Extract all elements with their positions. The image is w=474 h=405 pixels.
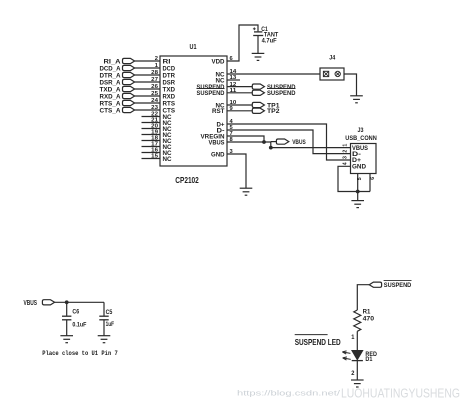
svg-text:Place close to U1 Pin 7: Place close to U1 Pin 7 <box>42 350 118 357</box>
U1 pin 9 RST <box>212 106 233 115</box>
svg-text:RTS_A: RTS_A <box>100 100 121 107</box>
wire U1 pin4 D+ to J3 pin3 <box>227 124 351 160</box>
U1 pin 20 NC stub <box>142 124 172 133</box>
off-page connector TP2 <box>252 108 280 115</box>
U1 pin 28 DTR <box>151 70 175 79</box>
off-page connector SUSPEND# (LED) <box>369 280 411 289</box>
wire VBUS to capacitors <box>55 301 104 303</box>
U1 pin 4 D+ <box>217 119 234 128</box>
off-page connector DSR_A <box>100 79 135 86</box>
U1 pin 16 NC stub <box>142 148 172 157</box>
wire DCD_A to U1 pin 1 <box>135 67 160 69</box>
U1 pin 18 NC stub <box>142 136 172 145</box>
wire C5 to ground <box>103 320 105 336</box>
ground below D1 <box>351 380 364 387</box>
wire RI_A to U1 pin 2 <box>135 60 160 62</box>
wire DTR_A to U1 pin 28 <box>135 74 160 76</box>
svg-text:SUSPEND: SUSPEND <box>384 282 412 289</box>
svg-text:SUSPEND LED: SUSPEND LED <box>295 338 341 347</box>
wire U1 pin9 RST to TP2 <box>227 110 252 112</box>
ground below C5 <box>98 336 111 343</box>
svg-text:LUOHUATINGYUSHENG: LUOHUATINGYUSHENG <box>341 387 460 401</box>
svg-text:15: 15 <box>151 154 158 160</box>
svg-text:C5: C5 <box>106 309 113 316</box>
svg-text:VDD: VDD <box>212 58 225 65</box>
wire TXD_A to U1 pin 26 <box>135 88 160 90</box>
svg-text:TP2: TP2 <box>267 108 280 115</box>
off-page connector RI_A <box>104 58 135 65</box>
capacitor C5 <box>99 309 114 328</box>
U1 pin 13 NC <box>216 75 237 84</box>
wire J4 to ground <box>344 74 357 96</box>
wire U1 pin8 VBUS <box>227 142 271 148</box>
svg-text:RI: RI <box>163 58 171 65</box>
wire U1 pin14 to J4 <box>227 73 320 75</box>
off-page connector DCD_A <box>100 65 135 72</box>
U1 pin 26 TXD <box>151 84 175 93</box>
svg-text:NC: NC <box>163 156 172 163</box>
U1 pin 7 VREGIN <box>201 131 233 140</box>
wire U1 pin7 VREGIN down to VBUS net <box>227 136 264 142</box>
svg-text:RXD: RXD <box>163 93 176 100</box>
svg-text:RST: RST <box>212 108 225 115</box>
svg-text:DSR_A: DSR_A <box>100 79 121 86</box>
junction J3 ground <box>356 190 360 194</box>
svg-text:CP2102: CP2102 <box>175 176 199 185</box>
svg-text:DTR: DTR <box>163 72 176 79</box>
svg-text:https://blog.csdn.net/: https://blog.csdn.net/ <box>237 389 341 398</box>
svg-text:D1: D1 <box>365 356 372 363</box>
svg-text:VBUS: VBUS <box>209 139 226 146</box>
ground below J3 <box>351 201 364 208</box>
wire D1 cathode to ground <box>356 361 358 380</box>
wire U1 pin11 to SUSPEND# port <box>227 92 252 94</box>
off-page connector VBUS (decoupling) <box>24 298 55 307</box>
svg-text:23: 23 <box>151 105 158 111</box>
svg-text:4: 4 <box>342 162 348 165</box>
wire U1 pin10 to TP1 <box>227 104 252 106</box>
U1 pin 23 CTS <box>151 105 175 114</box>
svg-text:GND: GND <box>352 164 366 171</box>
svg-text:2: 2 <box>342 150 348 153</box>
ground below U1 <box>240 188 253 195</box>
U1 pin 1 DCD <box>155 63 175 72</box>
SUSPEND LED label <box>295 335 341 347</box>
U1 pin 27 DSR <box>151 77 175 86</box>
wire U1 pin6 VDD to C1 <box>227 25 258 61</box>
capacitor C1 <box>253 26 278 45</box>
svg-text:VBUS: VBUS <box>24 298 38 307</box>
svg-text:27: 27 <box>151 77 158 83</box>
svg-text:C6: C6 <box>72 309 79 316</box>
wire U1 pin5 D- to J3 pin2 <box>227 130 351 154</box>
wire CTS_A to U1 pin 23 <box>135 109 160 111</box>
svg-text:RXD_A: RXD_A <box>100 93 121 100</box>
svg-text:GND: GND <box>211 151 225 158</box>
off-page connector DTR_A <box>100 72 135 79</box>
J3 pin5 shield wire <box>357 174 359 192</box>
off-page connector VBUS (net) <box>271 139 306 146</box>
svg-text:J3: J3 <box>358 127 364 134</box>
U1 pin 11 SUSPEND <box>197 88 237 97</box>
U1 pin 21 NC stub <box>142 118 172 127</box>
U1 pin 19 NC stub <box>142 130 172 139</box>
svg-text:SUSPEND: SUSPEND <box>267 90 296 97</box>
svg-text:5: 5 <box>357 177 363 180</box>
wire U1 pin13 NC stub <box>227 79 240 81</box>
U1 pin 15 NC stub <box>142 154 172 163</box>
U1 pin 5 D- <box>217 125 233 134</box>
svg-text:U1: U1 <box>190 44 197 51</box>
wire U1 pin12 to SUSPEND port <box>227 86 252 88</box>
svg-text:DCD_A: DCD_A <box>100 65 121 72</box>
junction VBUS-C6 <box>65 300 69 304</box>
wire J3 GND pin4 to ground bus <box>338 166 370 191</box>
U1 pin 22 NC stub <box>142 112 172 121</box>
svg-text:28: 28 <box>151 70 158 76</box>
U1 pin 2 RI <box>155 56 171 65</box>
svg-text:CTS_A: CTS_A <box>100 107 121 114</box>
svg-text:470: 470 <box>363 316 375 323</box>
off-page connector CTS_A <box>100 107 135 114</box>
junction VBUS node <box>269 146 273 150</box>
off-page connector RXD_A <box>100 93 135 100</box>
wire to ground J3 <box>357 192 359 201</box>
svg-text:RTS: RTS <box>163 100 176 107</box>
wire C6 to ground <box>66 320 68 336</box>
svg-text:USB_CONN: USB_CONN <box>345 135 377 142</box>
jumper J4 <box>320 55 344 81</box>
svg-text:1uF: 1uF <box>106 321 115 328</box>
wire VBUS net to J3 pin1 <box>271 147 351 149</box>
svg-text:0.1uF: 0.1uF <box>72 322 86 329</box>
off-page connector SUSPEND# (pin11) <box>252 89 295 98</box>
svg-text:RI_A: RI_A <box>104 58 121 65</box>
wire R1 to LED D1 anode <box>356 331 358 350</box>
svg-text:TXD: TXD <box>163 86 176 93</box>
connector J3 USB_CONN <box>345 127 377 173</box>
wire DSR_A to U1 pin 27 <box>135 81 160 83</box>
watermark text <box>237 387 460 401</box>
svg-text:TXD_A: TXD_A <box>100 86 121 93</box>
off-page connector RTS_A <box>100 100 135 107</box>
svg-text:DSR: DSR <box>163 79 176 86</box>
U1 pin 17 NC stub <box>142 142 172 151</box>
svg-text:DTR_A: DTR_A <box>100 72 121 79</box>
wire down to C6 <box>66 302 68 315</box>
LED D1 RED <box>342 350 377 363</box>
svg-text:1: 1 <box>342 144 348 147</box>
ground below C1 <box>252 53 265 60</box>
wire U1 pin3 GND to ground <box>227 154 246 188</box>
capacitor C6 <box>62 309 86 329</box>
resistor R1 470 <box>354 309 375 332</box>
svg-text:J4: J4 <box>329 55 335 62</box>
U1 pin 24 RTS <box>151 98 175 107</box>
svg-text:4.7uF: 4.7uF <box>262 38 277 45</box>
off-page connector SUSPEND (pin12) <box>252 84 295 91</box>
svg-text:26: 26 <box>151 84 158 90</box>
svg-text:DCD: DCD <box>163 65 176 72</box>
U1 pin 6 VDD <box>212 56 233 65</box>
U1 pin 14 NC <box>216 69 238 78</box>
ground below C6 <box>60 336 73 343</box>
U1 pin 3 GND <box>211 149 233 158</box>
wire down to C5 <box>103 302 105 315</box>
U1 pin 8 VBUS <box>209 137 233 146</box>
svg-text:2: 2 <box>155 56 158 62</box>
ground below J4 <box>350 96 363 103</box>
svg-text:6: 6 <box>370 177 376 180</box>
svg-text:VBUS: VBUS <box>292 139 306 146</box>
U1 pin 12 SUSPEND <box>197 82 237 91</box>
svg-text:24: 24 <box>151 98 159 104</box>
off-page connector TXD_A <box>100 86 135 93</box>
svg-text:SUSPEND: SUSPEND <box>197 90 225 97</box>
junction VREGIN-VBUS <box>262 140 266 144</box>
wire SUSPEND to R1 <box>357 285 369 310</box>
wire C1 to ground <box>257 36 259 54</box>
off-page connector TP1 <box>252 102 280 109</box>
svg-text:1: 1 <box>155 63 158 69</box>
wire RXD_A to U1 pin 25 <box>135 95 160 97</box>
J3 pin6 shield wire <box>369 174 371 192</box>
svg-text:3: 3 <box>342 156 348 159</box>
IC U1 CP2102 body <box>160 56 227 166</box>
svg-text:25: 25 <box>151 91 158 97</box>
U1 pin 10 NC <box>216 100 237 109</box>
wire RTS_A to U1 pin 24 <box>135 102 160 104</box>
U1 pin 25 RXD <box>151 91 175 100</box>
